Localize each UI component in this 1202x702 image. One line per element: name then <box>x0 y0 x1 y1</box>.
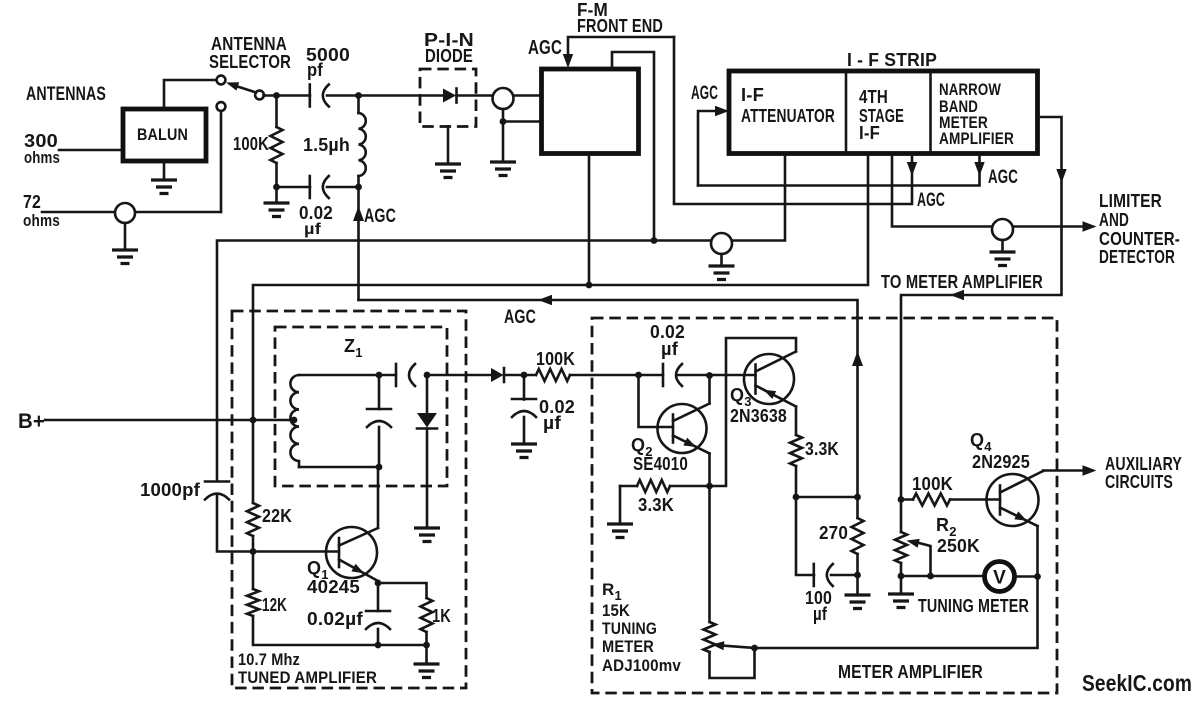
ground below PIN box <box>435 164 461 178</box>
block F-M FRONT END <box>542 69 639 154</box>
dashed box P-I-N diode <box>420 69 476 127</box>
svg-text:FRONT END: FRONT END <box>577 16 663 36</box>
wire B+ feed <box>45 419 294 422</box>
node R1 wiper <box>751 645 758 652</box>
wire 72-ohm up to selector contact <box>220 111 223 212</box>
diode CR1 (P-I-N) <box>443 89 456 103</box>
svg-text:TUNING METER: TUNING METER <box>918 596 1029 616</box>
node Q1 emitter <box>375 580 382 587</box>
ground below shunt cap <box>511 444 537 458</box>
wire diode to 100K <box>504 374 536 377</box>
svg-text:1000pf: 1000pf <box>140 480 201 500</box>
wire meter to Q4 emitter <box>1015 575 1038 578</box>
svg-text:METER AMPLIFIER: METER AMPLIFIER <box>838 662 983 682</box>
ground 270/100uf <box>845 595 871 609</box>
svg-text:AGC: AGC <box>364 206 396 227</box>
node emitter rail right <box>423 642 430 649</box>
capacitor 0.02uf (antenna) <box>277 186 311 189</box>
ground below R2 <box>888 594 914 608</box>
svg-text:AGC: AGC <box>504 307 536 328</box>
svg-text:TUNING: TUNING <box>602 619 657 638</box>
svg-text:AGC: AGC <box>528 37 562 59</box>
wire connector to ground <box>124 223 127 250</box>
inductor Z1 primary coil <box>290 375 299 467</box>
node RF/100K junction <box>273 92 280 99</box>
svg-text:AGC: AGC <box>917 190 945 211</box>
wire AGC bus from narrow band amp (B3) <box>698 154 980 186</box>
svg-text:4TH: 4TH <box>859 87 888 107</box>
svg-text:ANTENNA: ANTENNA <box>211 34 287 54</box>
resistor 12K <box>252 552 255 590</box>
wire cap to Q3 base <box>677 374 756 377</box>
wire B+ bus B4 to boxes <box>253 154 868 421</box>
meter V (tuning meter) <box>985 562 1015 592</box>
svg-text:12K: 12K <box>262 595 287 615</box>
capacitor 100uf <box>796 497 814 575</box>
node B+ coil tap <box>291 417 298 424</box>
svg-text:ohms: ohms <box>23 211 60 230</box>
wire Z1 bottom row <box>299 466 379 469</box>
wire 72-ohm input line <box>42 211 221 214</box>
wire IF strip to limiter <box>892 154 1084 227</box>
wire junction to ground <box>502 122 505 163</box>
potentiometer R2 <box>900 500 903 533</box>
node V1 joins B1 <box>651 237 658 244</box>
wire AGC bus from 4th stage (B2) <box>674 37 912 204</box>
transistor Q4 <box>987 474 1039 526</box>
resistor 3.3K (Q2 emitter) <box>620 485 637 488</box>
wire J4 to ground <box>1001 240 1004 252</box>
svg-text:I - F STRIP: I - F STRIP <box>847 50 937 70</box>
node meter amp input <box>898 496 905 503</box>
svg-text:ohms: ohms <box>24 148 60 167</box>
svg-text:µf: µf <box>661 339 679 359</box>
svg-text:3.3K: 3.3K <box>638 495 674 515</box>
node Z1 bottom / Q1 collector <box>376 464 383 471</box>
connector J1 on 72-ohm line <box>115 203 135 223</box>
wire 5000pf to inductor node <box>327 94 420 97</box>
wire connector stem to junction <box>502 109 505 122</box>
svg-text:TUNED AMPLIFIER: TUNED AMPLIFIER <box>238 668 377 687</box>
node 100K bottom <box>273 184 280 191</box>
node Q2 base / cap left <box>635 372 642 379</box>
svg-text:270: 270 <box>819 523 848 543</box>
transistor Q1 <box>326 527 377 578</box>
node RF/1.5uh junction <box>355 92 362 99</box>
wire Q1 base <box>253 550 339 553</box>
svg-text:I-F: I-F <box>741 85 764 105</box>
svg-text:CIRCUITS: CIRCUITS <box>1105 472 1173 492</box>
svg-text:250K: 250K <box>937 536 980 556</box>
wire AGC return bus B5 <box>359 300 858 497</box>
node 270 bottom <box>854 572 861 579</box>
ground below FM input connector <box>490 162 516 176</box>
svg-text:pf: pf <box>307 60 324 80</box>
wire R2 to ground <box>900 576 903 594</box>
resistor 22K <box>252 420 255 503</box>
switch S1 blade with arrow <box>236 86 256 93</box>
dashed box meter amplifier <box>592 318 1057 693</box>
resistor 1K <box>378 583 427 598</box>
wire into PIN diode <box>420 94 443 97</box>
svg-text:100K: 100K <box>536 349 575 369</box>
wire 1000pf branch <box>217 495 253 552</box>
ground below balun <box>151 180 177 194</box>
wire Q2 collector up <box>708 376 711 404</box>
svg-text:1K: 1K <box>432 606 451 626</box>
wire FM bottom to B+ bus <box>588 154 591 286</box>
inductor 1.5uh <box>357 96 360 114</box>
switch S1 contact upper <box>217 76 226 85</box>
svg-text:15K: 15K <box>602 601 630 620</box>
ground below varactor <box>414 528 440 542</box>
wire AGC into FM front end top <box>568 37 674 61</box>
wire AGC riser to tuner input <box>357 187 360 300</box>
node R2 bottom <box>898 573 905 580</box>
potentiometer R1 <box>704 622 716 652</box>
svg-text:µf: µf <box>813 604 828 624</box>
node Q2 collector / Q3 base <box>706 372 713 379</box>
divider I-F strip 1 <box>845 73 848 152</box>
svg-text:0.02: 0.02 <box>299 203 333 223</box>
svg-text:B+: B+ <box>18 410 45 433</box>
wire AGC arrow into I-F attenuator <box>698 111 716 186</box>
wire Z1 top row <box>299 374 396 377</box>
svg-text:COUNTER-: COUNTER- <box>1099 229 1180 249</box>
node row B right <box>854 494 861 501</box>
node FM bottom on B4 <box>586 282 593 289</box>
wire rail to ground <box>425 645 428 664</box>
wire to ground <box>856 575 859 595</box>
svg-text:AGC: AGC <box>988 167 1018 188</box>
diode detector <box>491 368 504 382</box>
svg-text:LIMITER: LIMITER <box>1099 191 1162 211</box>
capacitor 0.02uf emitter bypass <box>377 581 380 611</box>
transistor Q2 <box>658 404 707 453</box>
ground below J3 <box>709 266 735 280</box>
connector J3 on bus B1 <box>711 233 732 254</box>
ground below 72-ohm connector <box>112 250 138 264</box>
svg-text:2N3638: 2N3638 <box>730 406 787 426</box>
wire meter row <box>901 575 985 578</box>
capacitor 1000pf <box>205 480 229 483</box>
wire bus B1 front-end top to Q1 base network <box>217 154 785 482</box>
capacitor Z1 tuning <box>378 375 381 409</box>
wire 3.3K to ground <box>619 486 622 524</box>
svg-text:DIODE: DIODE <box>425 46 473 66</box>
svg-text:AGC: AGC <box>691 83 718 104</box>
transistor Q3 <box>744 354 794 404</box>
wire 300-ohm input to balun <box>59 149 123 152</box>
svg-text:72: 72 <box>23 192 41 212</box>
capacitor Z1 coupling <box>395 364 398 386</box>
wire Q2 base tap <box>639 375 674 427</box>
svg-text:AUXILIARY: AUXILIARY <box>1105 454 1182 474</box>
node B+ / bias divider <box>250 417 257 424</box>
wire row B <box>796 496 858 499</box>
ground below 100K <box>264 203 290 217</box>
wire balun to ground <box>163 161 166 180</box>
svg-text:AND: AND <box>1099 210 1129 230</box>
node Z1 top / varactor <box>424 372 431 379</box>
svg-text:0.02µf: 0.02µf <box>307 609 364 629</box>
wire Z1 out to detector diode <box>427 374 491 377</box>
capacitor 5000pf <box>308 85 311 107</box>
wire balun output to selector contact <box>164 80 216 109</box>
svg-text:METER: METER <box>602 637 654 656</box>
wire junction to FM box second input <box>503 120 542 123</box>
node 1.5uh bottom / AGC feed <box>355 184 362 191</box>
svg-text:SELECTOR: SELECTOR <box>209 52 291 72</box>
svg-text:ANTENNAS: ANTENNAS <box>26 84 106 105</box>
dashed box Z1 <box>275 327 447 486</box>
svg-text:SE4010: SE4010 <box>633 454 688 474</box>
svg-text:100K: 100K <box>912 474 953 494</box>
dashed box 10.7Mhz tuned amplifier <box>232 311 466 688</box>
svg-text:µf: µf <box>304 221 322 238</box>
switch S1 pole contact <box>255 91 264 100</box>
divider I-F strip 2 <box>929 73 932 152</box>
svg-text:2N2925: 2N2925 <box>972 452 1030 472</box>
node Z1 top / tuning cap <box>376 372 383 379</box>
capacitor 0.02uf shunt <box>523 375 526 400</box>
node FM second input <box>500 118 507 125</box>
svg-text:ATTENUATOR: ATTENUATOR <box>741 106 835 126</box>
svg-text:10.7 Mhz: 10.7 Mhz <box>238 650 300 669</box>
svg-text:I-F: I-F <box>859 123 880 143</box>
svg-text:V: V <box>993 568 1006 589</box>
svg-text:ADJ100mv: ADJ100mv <box>602 656 681 675</box>
svg-text:AMPLIFIER: AMPLIFIER <box>939 129 1014 148</box>
svg-text:40245: 40245 <box>307 577 360 597</box>
capacitor 0.02uf feedback <box>662 364 665 386</box>
ground Q1 stage <box>414 664 440 678</box>
wire wiper row to Q4 emitter <box>755 526 1038 648</box>
node Q1 base <box>250 548 257 555</box>
node shunt cap <box>521 372 528 379</box>
wire 100K bottom to ground <box>275 187 278 203</box>
resistor 3.3K (Q3 emitter) <box>795 407 798 436</box>
wire IF strip right output down to meter amp <box>901 117 1062 500</box>
connector J2 on FM input <box>493 88 514 109</box>
svg-text:1.5µh: 1.5µh <box>303 135 350 155</box>
wire PIN diode to connector <box>457 94 542 97</box>
wire FM top output jog <box>612 52 654 241</box>
resistor 100K (antenna bias) <box>275 96 278 128</box>
block I-F STRIP <box>729 71 1038 154</box>
wiper R1 <box>722 646 755 649</box>
svg-text:3.3K: 3.3K <box>805 439 839 459</box>
svg-text:µf: µf <box>543 413 562 433</box>
wiper R2 <box>917 543 931 577</box>
wire PIN box to ground <box>447 127 450 165</box>
svg-text:BALUN: BALUN <box>137 125 188 144</box>
svg-text:100K: 100K <box>233 134 269 154</box>
svg-text:22K: 22K <box>262 506 292 526</box>
node R2 wiper bottom <box>927 573 934 580</box>
wire Q4 collector to auxiliary <box>1043 469 1084 472</box>
ground Q2 emitter resistor <box>607 524 633 538</box>
node Q4 emitter junction <box>1034 573 1041 580</box>
switch S1 contact lower (72 ohm) <box>217 102 226 111</box>
wire J3 to ground <box>720 254 723 266</box>
wire R1 top from feedback node <box>708 486 711 622</box>
connector J4 on limiter wire <box>992 219 1013 240</box>
wire 100K to Q2 base node <box>570 374 663 377</box>
resistor 100K (Q4 base) <box>913 494 950 506</box>
ground below J4 <box>990 252 1016 266</box>
svg-text:TO METER AMPLIFIER: TO METER AMPLIFIER <box>881 272 1043 292</box>
svg-text:SeekIC.com: SeekIC.com <box>1082 670 1192 696</box>
wire Q3 collector loop to Q2 emitter <box>710 338 797 486</box>
node Q2 emitter / feedback <box>706 483 713 490</box>
balun box <box>123 109 206 161</box>
resistor 270 <box>856 497 859 518</box>
svg-text:DETECTOR: DETECTOR <box>1099 247 1175 267</box>
wire Q1 collector to Z1 <box>377 467 380 528</box>
node emitter rail left <box>375 642 382 649</box>
wire Q2 emitter down <box>708 454 711 487</box>
resistor 100K (series) <box>536 369 570 381</box>
wire RF line from selector <box>264 94 311 97</box>
diode varactor <box>426 375 429 413</box>
node Q3 emitter resistor bottom <box>793 494 800 501</box>
